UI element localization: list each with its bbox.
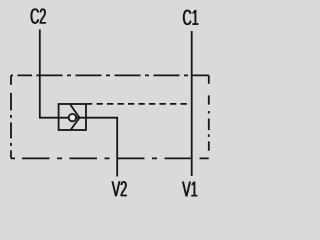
- envelope left edge: [10, 75, 12, 158]
- envelope right edge: [208, 75, 210, 158]
- wire through valve to V2: [59, 118, 118, 177]
- check valve box: [59, 104, 86, 130]
- envelope top edge: [11, 74, 209, 76]
- check valve seat: [71, 105, 80, 130]
- port label C1: [183, 10, 199, 25]
- wire C2 down + elbow to valve: [40, 30, 59, 118]
- wire C1 to V1: [191, 31, 193, 176]
- envelope bottom edge: [11, 157, 209, 159]
- port label V1: [182, 182, 198, 197]
- pilot line (dashed): [86, 103, 192, 105]
- check valve ball: [69, 114, 76, 121]
- port label V2: [111, 181, 127, 196]
- port label C2: [30, 8, 46, 23]
